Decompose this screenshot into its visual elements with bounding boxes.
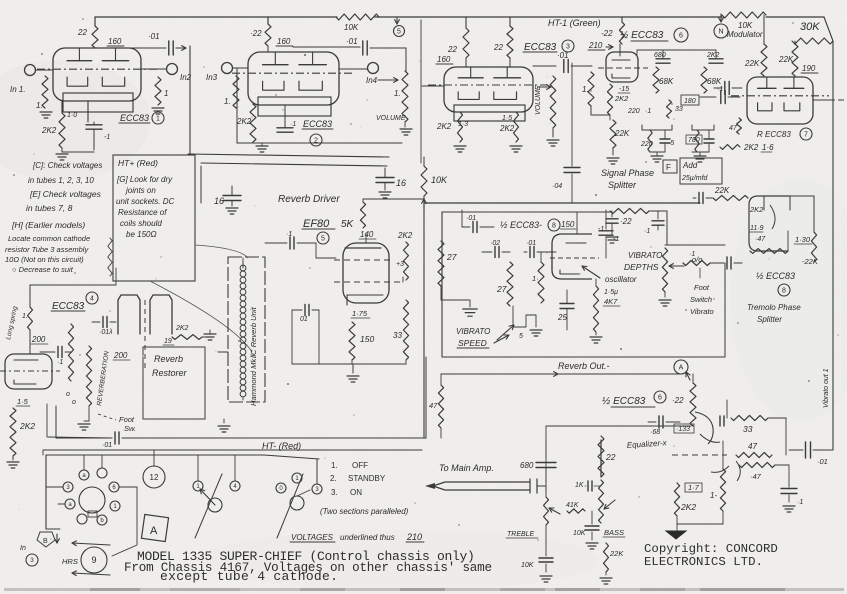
- wire reverb top: [30, 284, 116, 286]
- svg-text:12: 12: [150, 473, 159, 482]
- reverb unit box: [228, 257, 265, 402]
- resistor 22K t7a: [761, 44, 767, 76]
- ground tube1 cathode: [56, 153, 68, 155]
- resistor 47 eqb: [739, 462, 775, 467]
- svg-text:680: 680: [654, 52, 666, 59]
- svg-text:1.: 1.: [224, 97, 231, 106]
- svg-text:Modulator: Modulator: [727, 30, 763, 39]
- svg-text:Reverb: Reverb: [154, 354, 183, 364]
- svg-text:1: 1: [156, 116, 160, 123]
- socket wires: [46, 486, 63, 488]
- wire vibrato box top: [442, 211, 610, 213]
- svg-text:47: 47: [748, 442, 757, 451]
- ground t3a: [454, 145, 466, 147]
- capacitor .68 out: [658, 416, 660, 428]
- svg-text:½ ECC83: ½ ECC83: [620, 30, 664, 41]
- capacitor .1 eq gnd: [788, 465, 790, 487]
- socket pin 4: [230, 481, 240, 491]
- transducer coil a: [118, 295, 140, 334]
- svg-text:be 150Ω: be 150Ω: [126, 230, 157, 239]
- svg-text:680: 680: [520, 461, 534, 470]
- svg-text:F: F: [666, 163, 671, 172]
- svg-text:200: 200: [31, 335, 46, 344]
- wire HT- rail: [48, 437, 112, 438]
- svg-text:coils should: coils should: [120, 219, 162, 228]
- svg-text:10K: 10K: [738, 21, 753, 30]
- wire coupling rail down a: [189, 46, 191, 154]
- box A diamond: [141, 514, 168, 541]
- resistor 22 t3a: [463, 28, 469, 58]
- capacitor vib out: [726, 257, 728, 269]
- socket wiper arrow 1: [208, 498, 222, 512]
- switch contacts: [292, 473, 302, 483]
- svg-text:2K2: 2K2: [749, 205, 764, 214]
- svg-text:Hammond MkⅡC Reverb Unit: Hammond MkⅡC Reverb Unit: [249, 306, 258, 406]
- svg-text:ELECTRONICS LTD.: ELECTRONICS LTD.: [644, 555, 763, 569]
- svg-text:25µ/mfd: 25µ/mfd: [681, 175, 709, 182]
- svg-text:OFF: OFF: [352, 461, 368, 470]
- box reverb restorer: [143, 347, 205, 419]
- note box G: [113, 155, 195, 281]
- svg-text:unit sockets. DC: unit sockets. DC: [116, 197, 174, 206]
- svg-text:33: 33: [675, 106, 683, 113]
- ground t4: [7, 461, 19, 463]
- svg-text:2K2: 2K2: [743, 143, 759, 152]
- wire right out bus: [833, 449, 834, 451]
- svg-text:[C]: Check voltages: [C]: Check voltages: [32, 161, 102, 170]
- tube V1 ECC83: [53, 48, 141, 101]
- svg-text:in tubes 1, 2, 3, 10: in tubes 1, 2, 3, 10: [28, 176, 94, 185]
- svg-text:STANDBY: STANDBY: [348, 474, 386, 483]
- resistor 22 eq: [598, 436, 604, 477]
- svg-text:SPEED: SPEED: [458, 338, 487, 348]
- resistor 33 ef80: [403, 300, 408, 360]
- wire eq bottom: [677, 523, 723, 525]
- resistor eq b: [720, 469, 725, 511]
- capacitor .01 osc a: [472, 222, 474, 233]
- svg-text:210: 210: [588, 41, 603, 50]
- svg-text:33: 33: [393, 331, 402, 340]
- ground osc tube: [590, 336, 602, 338]
- svg-text:DEPTHS: DEPTHS: [624, 262, 659, 272]
- svg-text:·1: ·1: [286, 231, 292, 238]
- wire reverb out rail: [441, 373, 558, 375]
- svg-text:200: 200: [113, 351, 128, 360]
- arrow hrs up: [72, 543, 110, 545]
- svg-text:220: 220: [640, 141, 653, 148]
- svg-text:·1: ·1: [644, 228, 650, 235]
- svg-text:Signal Phase: Signal Phase: [601, 168, 654, 178]
- capacitor 25 osc: [560, 303, 574, 305]
- capacitor trem in: [698, 193, 700, 204]
- wire vib down: [724, 263, 726, 357]
- capacitor 680 main: [545, 440, 547, 457]
- wire vib to trem: [741, 262, 743, 264]
- svg-text:22K: 22K: [744, 59, 760, 68]
- svg-text:10K: 10K: [573, 530, 586, 537]
- wire ecc4 tie: [115, 268, 117, 285]
- svg-text:19: 19: [164, 338, 172, 345]
- svg-text:7: 7: [804, 132, 808, 139]
- socket pin c1: [77, 514, 87, 524]
- svg-text:[H] (Earlier models): [H] (Earlier models): [11, 220, 85, 230]
- svg-text:VOLUME: VOLUME: [376, 115, 406, 122]
- svg-text:o/o: o/o: [692, 255, 702, 264]
- capacitor .1 phase: [700, 96, 716, 98]
- svg-text:10K: 10K: [344, 23, 359, 32]
- svg-text:01: 01: [300, 316, 308, 323]
- socket pin a1: [79, 470, 89, 480]
- svg-text:In3: In3: [206, 73, 218, 82]
- svg-text:·01: ·01: [346, 37, 358, 46]
- svg-text:·01: ·01: [817, 457, 828, 466]
- resistor 4K7 osc: [593, 286, 598, 332]
- svg-text:HT+ (Red): HT+ (Red): [118, 158, 158, 168]
- svg-text:1.: 1.: [22, 313, 28, 320]
- socket pin 6: [109, 482, 119, 492]
- svg-text:9: 9: [91, 555, 96, 565]
- svg-text:Tremolo Phase: Tremolo Phase: [747, 303, 801, 312]
- socket pin 1: [193, 481, 203, 491]
- svg-text:ECC83: ECC83: [524, 42, 557, 53]
- wire cathode join t1: [61, 148, 63, 152]
- socket wiper arrow 2: [290, 496, 304, 510]
- svg-text:·01: ·01: [526, 240, 536, 247]
- svg-text:oscillator: oscillator: [605, 275, 637, 284]
- svg-text:·133: ·133: [676, 426, 690, 433]
- resistor 22K trem: [713, 195, 748, 200]
- svg-text:5: 5: [519, 333, 523, 340]
- node B pentagon: [37, 532, 55, 547]
- ground 22K bass: [600, 577, 612, 579]
- resistor 30K: [792, 38, 833, 44]
- resistor 10K dropper: [421, 166, 427, 196]
- resistor pot reverberation: [86, 346, 91, 406]
- svg-text:Copyright: CONCORD: Copyright: CONCORD: [644, 542, 778, 556]
- svg-text:2K2: 2K2: [680, 502, 696, 512]
- svg-text:10Ω (Not on this circuit): 10Ω (Not on this circuit): [5, 255, 84, 264]
- resistor 22K bass: [604, 543, 609, 572]
- svg-text:3: 3: [566, 44, 570, 51]
- resistor 2K2 cath phase: [607, 84, 612, 115]
- svg-text:·02: ·02: [490, 240, 500, 247]
- svg-text:10K: 10K: [431, 175, 448, 185]
- resistor 68K a: [653, 67, 659, 93]
- svg-text:-22K: -22K: [802, 257, 819, 266]
- svg-text:2K2: 2K2: [41, 126, 57, 135]
- svg-text:Vibrato out 1: Vibrato out 1: [823, 368, 830, 408]
- svg-text:·22: ·22: [620, 217, 632, 226]
- wire t7 plates: [763, 76, 765, 77]
- resistor plate EF80: [360, 202, 365, 228]
- ground In1: [40, 111, 52, 113]
- svg-text:VIBRATO: VIBRATO: [628, 251, 662, 260]
- capacitor .01 reverb: [102, 317, 104, 328]
- svg-text:160: 160: [108, 37, 122, 46]
- resistor horiz reverb: [172, 335, 202, 340]
- wire plate feed tube1: [94, 17, 96, 26]
- svg-text:190: 190: [802, 64, 816, 73]
- svg-text:1.: 1.: [582, 85, 589, 94]
- svg-text:2K2: 2K2: [236, 117, 252, 126]
- svg-text:-1: -1: [598, 226, 604, 233]
- resistor 27 osc a: [438, 241, 444, 286]
- svg-text:2K2: 2K2: [19, 421, 35, 431]
- svg-text:o: o: [66, 391, 70, 398]
- svg-text:N: N: [718, 29, 723, 36]
- svg-text:22K: 22K: [614, 129, 630, 138]
- ground mid: [218, 425, 230, 427]
- wire socket drop left: [42, 450, 44, 455]
- wire dropper join: [423, 196, 425, 438]
- svg-text:In4: In4: [366, 76, 378, 85]
- resistor 22K t7b: [792, 44, 798, 76]
- wire rail drop left: [200, 166, 202, 203]
- svg-text:B: B: [43, 538, 48, 545]
- resistor 47 out: [438, 385, 443, 428]
- socket pin 3L: [63, 482, 73, 492]
- ground ef80: [347, 375, 359, 377]
- svg-text:150: 150: [561, 220, 575, 229]
- svg-text:68K: 68K: [659, 77, 674, 86]
- svg-text:·01λ: ·01λ: [99, 329, 113, 336]
- svg-text:o: o: [72, 399, 76, 406]
- wire curve note to reverb: [195, 245, 248, 258]
- capacitor .04 hum: [571, 63, 573, 166]
- svg-text:150: 150: [360, 334, 374, 344]
- svg-text:Vibrato: Vibrato: [690, 307, 714, 316]
- resistor 2K2 tube1 cathode: [59, 113, 65, 148]
- svg-text:·1: ·1: [645, 108, 651, 115]
- svg-text:16: 16: [214, 196, 224, 206]
- resistor top t4: [28, 307, 33, 330]
- svg-text:220: 220: [627, 108, 640, 115]
- capacitor .01 coupling t2: [293, 46, 360, 48]
- resistor 22 out: [690, 383, 696, 426]
- resistor 47 eqa: [736, 452, 772, 457]
- svg-text:5: 5: [397, 29, 401, 36]
- wire trem down: [724, 263, 726, 357]
- svg-text:Reverb Driver: Reverb Driver: [278, 194, 340, 205]
- ground tube2 cathode: [256, 145, 268, 147]
- capacitor .01 osc b: [529, 247, 531, 258]
- svg-text:·47: ·47: [755, 236, 766, 243]
- resistor vibrato depth pot: [666, 211, 668, 245]
- resistor treble pot: [544, 497, 549, 525]
- capacitor .1 vib gnd: [611, 211, 613, 217]
- arrow hrs dn: [72, 573, 110, 575]
- resistor 22 tube2 plate: [265, 24, 271, 46]
- capacitor .1 vib: [657, 211, 659, 219]
- resistor 33 eqa: [731, 415, 768, 420]
- svg-text:2K2: 2K2: [436, 122, 452, 131]
- svg-text:2K2: 2K2: [175, 325, 189, 332]
- svg-text:Reverb Out.-: Reverb Out.-: [558, 361, 610, 371]
- svg-text:HT- (Red): HT- (Red): [262, 441, 301, 451]
- wire top HT supply bus: [95, 16, 337, 18]
- svg-text:R ECC83: R ECC83: [757, 130, 791, 139]
- wire cathode t1: [61, 101, 63, 113]
- svg-text:·5: ·5: [668, 140, 674, 147]
- svg-text:47: 47: [729, 125, 738, 132]
- svg-text:ECC83: ECC83: [303, 119, 332, 129]
- resistor trem cath: [750, 249, 788, 254]
- svg-text:8: 8: [552, 223, 556, 230]
- wire plate feeds tube3: [465, 17, 467, 28]
- tube V5 EF80: [343, 243, 389, 303]
- resistor 1 grid In3: [233, 76, 239, 108]
- svg-text:-1: -1: [104, 134, 110, 141]
- svg-text:5K: 5K: [341, 219, 355, 230]
- svg-text:except tube 4 cathode.: except tube 4 cathode.: [160, 569, 338, 584]
- svg-text:A: A: [679, 365, 684, 372]
- resistor 47 phase: [737, 118, 742, 134]
- wire socket top rail: [46, 454, 264, 456]
- reverb unit coil: [242, 262, 244, 268]
- svg-text:[G] Look for dry: [G] Look for dry: [116, 175, 173, 184]
- resistor 10K top bus: [336, 14, 379, 20]
- ground t3b: [510, 145, 522, 147]
- resistor cath t3b: [514, 112, 519, 142]
- svg-text:5: 5: [321, 236, 325, 243]
- socket 9 circle: [81, 547, 107, 573]
- svg-text:·47: ·47: [750, 472, 762, 481]
- node A circled: [674, 360, 688, 374]
- svg-text:·1: ·1: [797, 499, 803, 506]
- svg-text:Restorer: Restorer: [152, 368, 188, 378]
- perspective diagonal a: [195, 474, 222, 538]
- svg-text:180: 180: [684, 98, 696, 105]
- svg-text:½ ECC83: ½ ECC83: [602, 396, 646, 407]
- capacitor .1 ef80 in: [289, 237, 291, 249]
- transducer coil b: [150, 295, 172, 334]
- svg-text:To Main Amp.: To Main Amp.: [439, 463, 494, 473]
- svg-text:27: 27: [496, 284, 507, 294]
- resistor 2K2 t4: [10, 408, 16, 456]
- socket pin 3r: [312, 484, 322, 494]
- svg-text:27: 27: [446, 252, 457, 262]
- svg-text:Locate common cathode: Locate common cathode: [8, 234, 90, 243]
- ground 22K phase: [607, 157, 619, 159]
- pot wiper osc: [513, 306, 526, 327]
- svg-text:22: 22: [77, 28, 87, 37]
- svg-text:+3: +3: [396, 261, 404, 268]
- socket pin a2: [97, 468, 107, 478]
- RC parallel 220-5: [642, 125, 672, 130]
- svg-text:1·: 1·: [532, 274, 539, 283]
- svg-text:ON: ON: [350, 488, 362, 497]
- svg-text:ECC83: ECC83: [52, 301, 85, 312]
- svg-text:2K2: 2K2: [397, 231, 413, 240]
- wire plate feed tube2: [267, 17, 269, 24]
- capacitor .01 coupling t1: [124, 47, 166, 49]
- wire coil center dash: [144, 300, 146, 368]
- resistor 1 grid In1: [42, 76, 48, 108]
- svg-text:6: 6: [679, 33, 683, 40]
- capacitor .1 tube2 cathode: [277, 127, 293, 129]
- resistor 22K trem b: [811, 232, 816, 262]
- resistor 22K phase: [610, 120, 616, 148]
- tube V6b triode: [695, 412, 713, 444]
- svg-text:2K2: 2K2: [499, 124, 515, 133]
- svg-text:ECC83: ECC83: [120, 113, 149, 123]
- svg-text:1: 1: [164, 89, 168, 98]
- resistor 27 osc b: [507, 262, 513, 306]
- wire t4 junction: [29, 330, 31, 354]
- svg-text:HT-1 (Green): HT-1 (Green): [548, 18, 601, 28]
- svg-text:10K: 10K: [521, 562, 534, 569]
- jack In3: [222, 63, 233, 74]
- svg-text:1·30: 1·30: [795, 235, 811, 244]
- wire right border down: [832, 41, 834, 450]
- jack plug main amp: [433, 482, 530, 486]
- svg-text:2K2: 2K2: [614, 94, 629, 103]
- capacitor 16 smoothing b: [376, 177, 394, 179]
- svg-text:In: In: [20, 545, 26, 552]
- resistor horiz small: [720, 145, 740, 150]
- perspective diagonal b: [277, 474, 303, 538]
- svg-text:22: 22: [605, 452, 616, 462]
- ground eq dark: [666, 531, 686, 539]
- resistor 22 vib: [610, 208, 649, 213]
- svg-text:160: 160: [437, 55, 451, 64]
- svg-text:4K7: 4K7: [604, 297, 618, 306]
- pot bass: [599, 480, 604, 523]
- svg-text:Splitter: Splitter: [757, 315, 782, 324]
- svg-text:1-: 1-: [710, 491, 717, 500]
- svg-text:8: 8: [782, 288, 786, 295]
- svg-text:41K: 41K: [566, 502, 579, 509]
- scan specks: [203, 66, 204, 67]
- resistor 22 t3b: [507, 26, 513, 58]
- svg-text:Switch: Switch: [690, 295, 712, 304]
- svg-text:TREBLE: TREBLE: [507, 531, 535, 538]
- svg-text:780: 780: [688, 137, 700, 144]
- capacitor -1 osc fb: [605, 210, 607, 229]
- resistor 2K2 eq: [674, 483, 679, 516]
- svg-text:·22: ·22: [250, 29, 262, 38]
- resistor screen ef80: [404, 242, 409, 280]
- svg-text:[E] Check voltages: [E] Check voltages: [29, 189, 102, 199]
- svg-text:Add: Add: [682, 161, 698, 170]
- resistor 22 tube1 plate: [92, 26, 98, 48]
- svg-text:-15: -15: [619, 86, 629, 93]
- jack In1: [25, 65, 36, 76]
- capacitor .01 eq out: [805, 442, 807, 458]
- resistor vib wiper: [683, 261, 710, 266]
- svg-text:11·9: 11·9: [750, 225, 764, 232]
- RC parallel 780: [692, 125, 714, 130]
- svg-text:140: 140: [360, 230, 374, 239]
- svg-text:·01: ·01: [557, 51, 569, 60]
- capacitor 16 smoothing a: [223, 195, 241, 197]
- svg-text:22K: 22K: [778, 55, 794, 64]
- resistor 10K modulator: [722, 12, 766, 18]
- socket pin b1: [65, 499, 75, 509]
- ground volume t2: [400, 128, 412, 130]
- capacitor .1 to tube7: [714, 87, 722, 89]
- svg-text:1·5: 1·5: [17, 397, 29, 406]
- svg-text:1·5: 1·5: [502, 115, 512, 122]
- svg-text:1.: 1.: [394, 89, 401, 98]
- wire volume top t2: [405, 48, 407, 71]
- svg-text:1·0: 1·0: [67, 112, 77, 119]
- resistor 1 after t3: [588, 72, 594, 106]
- svg-text:22K: 22K: [609, 549, 624, 558]
- wire equalizer rail: [546, 425, 691, 427]
- wire footsw drop: [55, 406, 57, 438]
- tube V8 osc: [552, 234, 592, 279]
